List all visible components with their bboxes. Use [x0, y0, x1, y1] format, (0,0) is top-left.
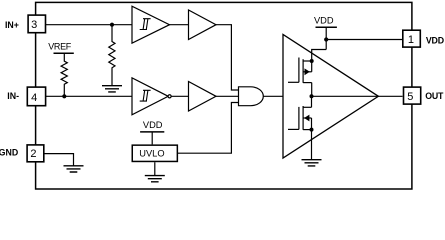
svg-text:VDD: VDD [426, 36, 444, 46]
svg-text:GND: GND [0, 148, 18, 158]
svg-text:VDD: VDD [143, 120, 163, 130]
svg-text:3: 3 [31, 19, 37, 31]
svg-text:IN+: IN+ [5, 20, 19, 30]
svg-text:2: 2 [30, 148, 36, 160]
svg-text:VREF: VREF [48, 41, 72, 51]
svg-text:4: 4 [31, 92, 37, 104]
svg-text:5: 5 [407, 91, 413, 103]
svg-text:OUT: OUT [425, 91, 444, 101]
svg-text:UVLO: UVLO [139, 149, 164, 159]
svg-text:VDD: VDD [314, 15, 334, 25]
svg-text:1: 1 [408, 34, 414, 46]
svg-text:IN-: IN- [7, 91, 19, 101]
